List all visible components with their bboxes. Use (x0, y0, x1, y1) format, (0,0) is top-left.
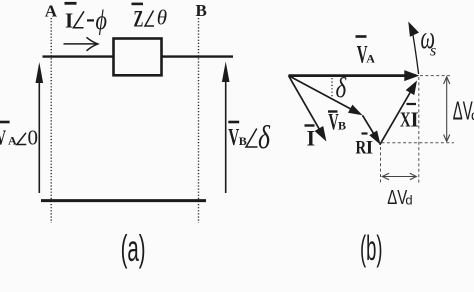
svg-text:δ: δ (258, 120, 271, 156)
svg-text:s: s (430, 43, 436, 60)
bottom wire (41, 199, 206, 202)
construction dashed horizontal bottom (382, 142, 455, 144)
value label I angle -phi (65, 3, 108, 35)
label I phasor (305, 125, 316, 150)
svg-text:I: I (307, 125, 316, 150)
svg-text:B: B (196, 1, 207, 20)
phasor VA (289, 70, 420, 81)
rotation arrow omega_s (408, 22, 419, 75)
construction dashed vertical at vertex (380, 147, 382, 184)
node B dotted bus line (198, 18, 200, 223)
voltage arrow VB (222, 62, 230, 194)
phasor XI (380, 81, 417, 145)
value label Z angle theta (132, 4, 168, 32)
impedance Z1 box (114, 39, 162, 76)
svg-text:B: B (338, 119, 346, 133)
svg-text:d: d (405, 193, 412, 208)
dimension arrow dVq (444, 77, 450, 142)
label VB phasor (328, 110, 346, 135)
label VA phasor (356, 37, 376, 69)
svg-text:(a): (a) (121, 228, 146, 269)
svg-text:V: V (0, 126, 6, 149)
phasor VB (289, 76, 363, 116)
angle delta dotted line (331, 78, 333, 97)
svg-text:I: I (65, 9, 73, 33)
svg-text:ΔV: ΔV (453, 98, 473, 126)
construction dashed horizontal top (420, 75, 451, 77)
svg-text:I: I (411, 107, 419, 131)
label dVd (387, 186, 412, 209)
value label VA angle 0 (0, 122, 38, 149)
top wire (43, 55, 234, 57)
svg-text:Z: Z (134, 7, 144, 32)
voltage arrow VA (36, 62, 44, 193)
svg-text:A: A (45, 1, 58, 20)
label RI phasor (356, 134, 374, 159)
construction dashed vertical at VA tip (418, 77, 420, 184)
svg-text:A: A (366, 52, 375, 66)
svg-text:(b): (b) (360, 229, 383, 268)
svg-text:V: V (228, 125, 239, 151)
svg-text:I: I (366, 137, 373, 158)
label omega_s (421, 19, 437, 59)
label XI phasor (400, 104, 419, 131)
value label VB angle delta (228, 120, 271, 156)
svg-text:X: X (400, 108, 411, 131)
dimension arrow dVd (382, 173, 417, 180)
svg-text:ΔV: ΔV (387, 186, 407, 209)
phasor I (289, 76, 327, 142)
svg-text:ϕ: ϕ (96, 6, 108, 36)
node A dotted bus line (50, 18, 52, 223)
current arrow I (64, 37, 98, 51)
svg-text:B: B (239, 134, 247, 148)
svg-text:0: 0 (28, 125, 39, 149)
label dVq (453, 98, 474, 126)
phasor RI (363, 115, 381, 145)
svg-text:δ: δ (336, 72, 348, 104)
svg-text:θ: θ (157, 6, 167, 30)
